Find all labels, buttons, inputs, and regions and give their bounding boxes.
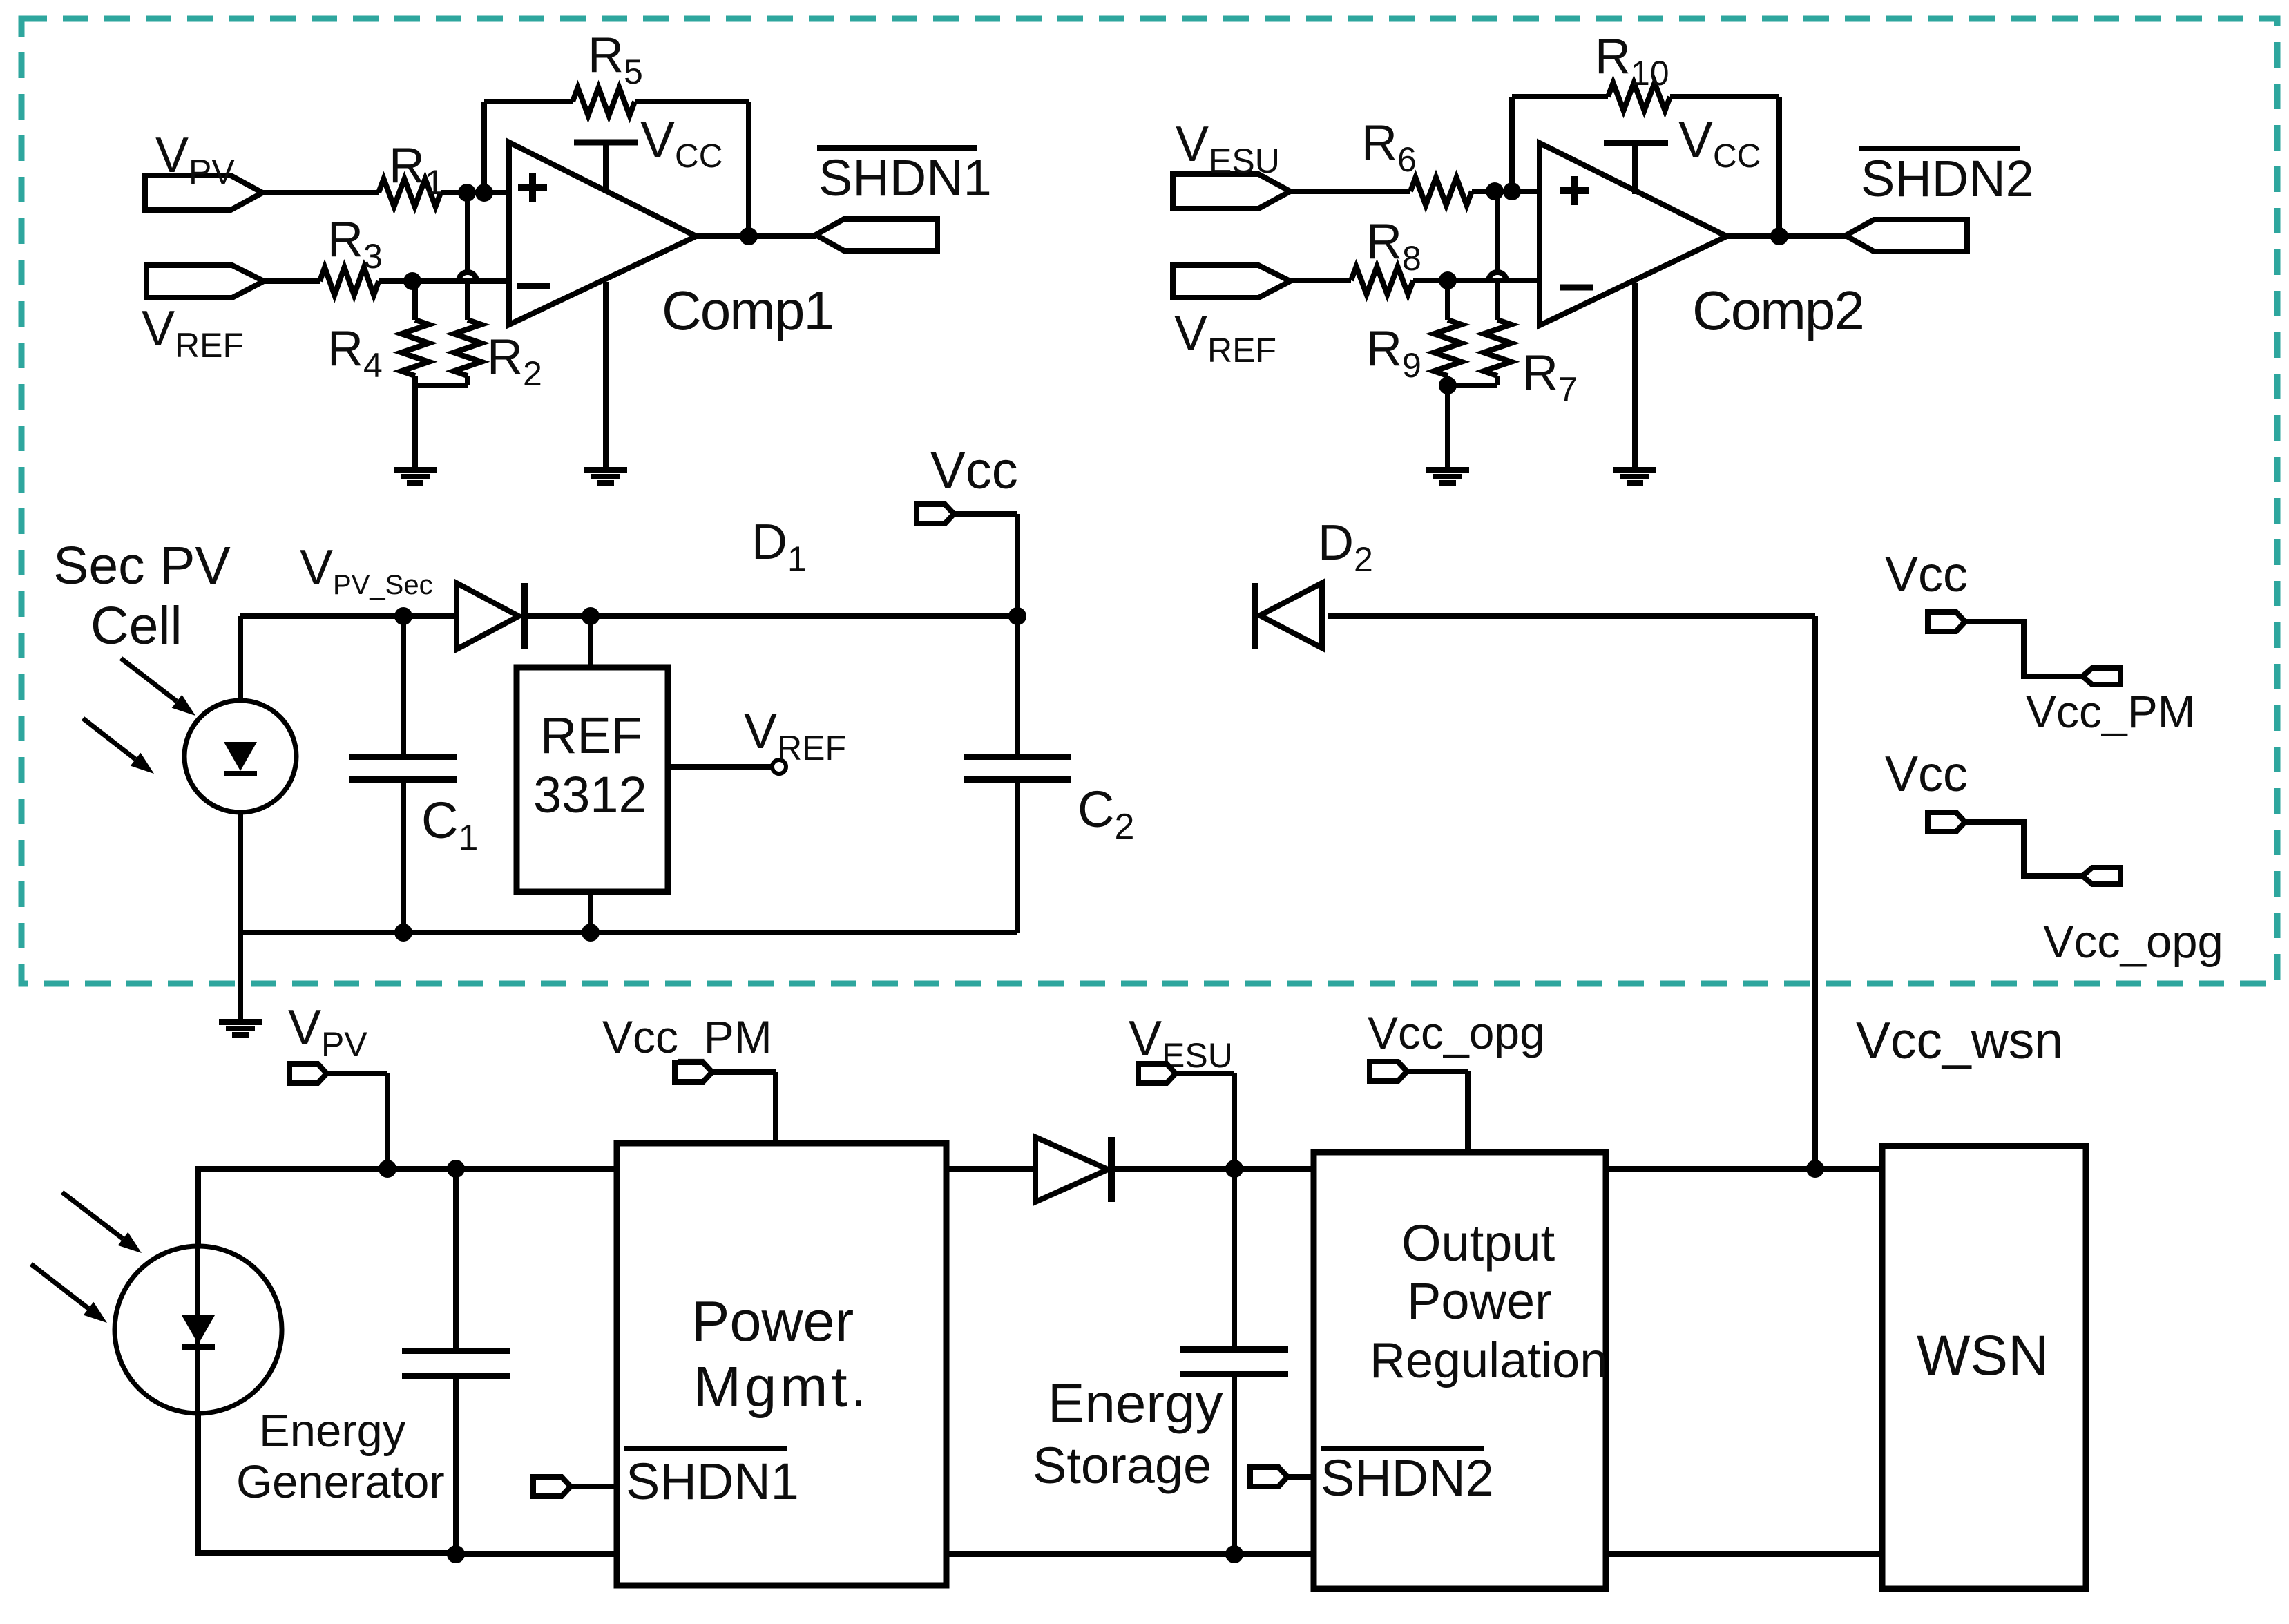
wire rail OPR to WSN (top) [1606, 1166, 1882, 1172]
svg-text:Vcc_PM: Vcc_PM [2026, 686, 2196, 737]
wire D2 to Vcc_wsn drop [1328, 613, 1815, 619]
wire VESU stub to rail [1176, 1073, 1234, 1169]
svg-text:Cell: Cell [90, 596, 182, 656]
wire R6 to +input [1472, 189, 1540, 194]
node dot Vcc_wsn [1806, 1160, 1824, 1178]
wire VESU to R6 [1289, 189, 1410, 194]
wire rail PM to diode [946, 1166, 1035, 1172]
terminal SHDN2 pill [1250, 1467, 1287, 1487]
terminal Vcc (mid supply pill) [917, 504, 954, 524]
resistor R5 [573, 28, 643, 115]
node dot C1 bottom [394, 924, 412, 942]
wire vertical drop to Vcc_wsn [1812, 616, 1818, 1169]
terminal Vcc pill (PM) [1928, 612, 1965, 631]
resistor R4 [327, 281, 429, 467]
light arrow 2 (bottom) [31, 1264, 107, 1323]
svg-text:Vcc_opg: Vcc_opg [2043, 916, 2223, 968]
terminal Vcc_PM pill [2082, 668, 2120, 685]
wire corner above Sec PV cell [238, 616, 243, 700]
node dot EG cap bottom [447, 1545, 465, 1563]
svg-text:SHDN2: SHDN2 [1321, 1449, 1494, 1507]
svg-text:WSN: WSN [1917, 1324, 2049, 1387]
label SHDN2 with overline [1859, 149, 2034, 207]
wire SHDN1 pill to PM box [571, 1484, 617, 1489]
terminal Vcc_opg pill [2082, 868, 2120, 884]
feedback loop left (to R5) [484, 102, 573, 193]
label Vcc (mid supply) [930, 441, 1018, 500]
pin REF3312 top [588, 616, 593, 667]
box Energy Generator [198, 1169, 456, 1553]
op-amp U2 Comp2 triangle [1540, 143, 1727, 325]
wire Vcc stub to rail [954, 514, 1017, 616]
node dot U2 output [1770, 227, 1788, 245]
wire SHDN2 pill to OPR box [1287, 1474, 1314, 1480]
wire rail PM to OPR (bottom) [946, 1551, 1314, 1557]
wire R7/R9 bottom link [1448, 383, 1497, 388]
wire R8 to -input [1413, 278, 1540, 283]
svg-text:Vcc: Vcc [930, 441, 1018, 500]
resistor R9 [1366, 280, 1462, 467]
wire U1 output [696, 233, 816, 239]
pin VREF output with open terminal [668, 704, 846, 774]
resistor R8 [1351, 214, 1421, 294]
wire rail EG to PM (bottom) [456, 1551, 617, 1557]
node dot B (R4 tap) [403, 272, 421, 290]
terminal SHDN1 pill [533, 1477, 571, 1496]
resistor R2 with wire hop over -input [454, 193, 542, 393]
node dot VPV_Sec / C1 top [394, 607, 412, 625]
wire U2 output [1727, 233, 1846, 239]
light arrow 1 (Sec PV) [121, 658, 195, 716]
node dot A1 (+wire/R2) [458, 184, 476, 202]
label Sec PV Cell [53, 536, 231, 656]
feedback loop right (R10 to output) [1670, 97, 1779, 236]
ground under R9 [1426, 467, 1469, 486]
capacitor C2 [964, 616, 1134, 933]
node dot EG cap top [447, 1160, 465, 1178]
resistor R3 [320, 212, 383, 295]
svg-text:Vcc: Vcc [1885, 747, 1968, 802]
svg-text:Energy: Energy [1048, 1373, 1223, 1434]
wire top rail left segment [240, 613, 457, 619]
photodiode Energy Generator [115, 1169, 282, 1553]
svg-text:Mgmt.: Mgmt. [693, 1355, 870, 1419]
svg-text:3312: 3312 [533, 766, 647, 823]
resistor R1 [379, 138, 444, 207]
svg-text:SHDN1: SHDN1 [626, 1453, 799, 1510]
wire Vcc to Vcc_opg [1965, 822, 2082, 876]
wire R2/R4 bottom link [415, 383, 468, 388]
node dot VESU/rail [1225, 1160, 1243, 1178]
svg-text:SHDN2: SHDN2 [1861, 150, 2034, 207]
svg-text:Vcc: Vcc [1885, 547, 1968, 602]
minus input symbol U1 [517, 283, 550, 289]
port SHDN2 (output connector) [1846, 220, 1967, 251]
feedback loop right (R5 to output) [635, 102, 749, 236]
minus input symbol U2 [1560, 285, 1593, 291]
svg-text:Vcc_opg: Vcc_opg [1368, 1007, 1545, 1058]
IC REF3312 box [517, 667, 668, 892]
op-amp U1 Comp1 triangle [509, 142, 696, 325]
light arrow 2 (Sec PV) [83, 718, 154, 774]
node dot C2 (+wire/R10 feedback) [1503, 182, 1521, 200]
wire rail diode to OPR [1115, 1166, 1314, 1172]
svg-text:REF: REF [540, 707, 642, 764]
svg-text:Vcc_PM: Vcc_PM [602, 1011, 772, 1062]
wire VREF to R3 [264, 278, 320, 284]
node dot REF3312 top [582, 607, 600, 625]
ground under Sec PV cell [219, 1019, 262, 1038]
svg-text:Comp1: Comp1 [662, 280, 833, 341]
svg-text:Storage: Storage [1033, 1437, 1211, 1494]
label Vcc (PM terminal) [1885, 547, 1968, 602]
label SHDN1 with overline [817, 148, 992, 207]
ground under U2 [1613, 467, 1656, 486]
svg-text:Regulation: Regulation [1370, 1333, 1607, 1388]
wire R1 to +input [441, 190, 509, 195]
node dot C1 (+wire/R7) [1486, 182, 1504, 200]
label Comp1 [662, 280, 833, 341]
diode D3 (PM to storage) [1035, 1137, 1115, 1202]
label Energy Storage [1033, 1373, 1223, 1494]
label SHDN1 pin with overline (PM box) [624, 1449, 799, 1510]
wire Vcc to Vcc_PM [1965, 622, 2082, 676]
port VPV (Comp1 input connector) [145, 128, 262, 210]
diode D1 [457, 515, 807, 649]
ground stub of U1 [603, 282, 609, 467]
terminal Vcc_opg pill (bottom) [1370, 1062, 1407, 1081]
pin REF3312 bottom [588, 892, 593, 933]
capacitor EG filter [402, 1169, 510, 1554]
svg-text:Generator: Generator [236, 1456, 445, 1508]
label Vcc_opg (bottom stub) [1368, 1007, 1545, 1058]
node dot A2 (+wire/R5 feedback) [475, 184, 493, 202]
svg-text:Vcc_wsn: Vcc_wsn [1856, 1011, 2063, 1069]
light arrow 1 (bottom) [62, 1192, 142, 1253]
label Vcc_opg (terminal) [2043, 916, 2223, 968]
photodiode Sec PV Cell [184, 700, 296, 812]
svg-text:SHDN1: SHDN1 [818, 149, 992, 207]
wire rail OPR to WSN (bottom) [1606, 1551, 1882, 1557]
wire VREF to R8 [1290, 278, 1351, 283]
node dot D (R9 tap) [1439, 271, 1457, 289]
box Output Power Regulation [1314, 1152, 1607, 1589]
plus input symbol U2 [1560, 176, 1589, 205]
label Vcc_PM (bottom stub) [602, 1011, 772, 1062]
node dot U1 output [740, 227, 758, 245]
feedback loop left (to R10) [1512, 97, 1608, 191]
terminal Vcc pill (opg) [1928, 812, 1965, 832]
wire VPV stub to rail [327, 1073, 387, 1169]
diode D2 [1252, 515, 1373, 649]
wire Sec PV cell to ground [238, 933, 243, 1019]
label Vcc (opg terminal) [1885, 747, 1968, 802]
svg-text:Power: Power [691, 1289, 854, 1353]
port VREF (Comp2 input connector) [1173, 265, 1290, 370]
terminal VESU pill [1138, 1064, 1176, 1083]
wire bottom rail (mid section) [240, 930, 1017, 935]
resistor R6 [1361, 115, 1472, 205]
wire R3 to -input [379, 278, 509, 284]
resistor R10 [1595, 29, 1670, 111]
svg-text:Sec PV: Sec PV [53, 536, 231, 595]
wire Vcc_opg stub into OPR box [1407, 1071, 1468, 1152]
ground under R4 [394, 467, 437, 486]
label Vcc_wsn [1856, 1011, 2063, 1069]
label SHDN2 pin with overline (OPR box) [1321, 1449, 1494, 1507]
resistor R7 with wire hop over -input [1484, 191, 1578, 409]
node dot Vcc/C2 [1008, 607, 1026, 625]
node dot VPV/rail [379, 1160, 396, 1178]
svg-text:Output: Output [1401, 1214, 1555, 1272]
box WSN [1882, 1146, 2086, 1589]
port SHDN1 (output connector) [816, 219, 937, 251]
Vcc bar of U2 [1604, 111, 1761, 194]
terminal Vcc_PM pill (bottom) [675, 1062, 712, 1082]
plus input symbol U1 [518, 173, 547, 202]
Vcc bar of U1 [574, 111, 722, 193]
box Power Mgmt [617, 1143, 946, 1585]
port VESU (Comp2 input connector) [1173, 117, 1290, 209]
svg-text:Power: Power [1407, 1272, 1552, 1330]
label VPV_Sec [300, 540, 433, 600]
dashed analog supervision boundary box [21, 19, 2277, 984]
wire rail EG to PM (top) [456, 1166, 617, 1172]
node dot REF3312 bottom [582, 924, 600, 942]
terminal VPV pill [289, 1064, 327, 1083]
label Vcc_PM (terminal) [2026, 686, 2196, 737]
wire D1 to Vcc node [528, 613, 1017, 619]
node dot ES cap bottom [1225, 1545, 1243, 1563]
port VREF (Comp1 input connector) [142, 265, 264, 365]
capacitor C1 [349, 616, 478, 933]
capacitor Energy Storage [1180, 1169, 1288, 1554]
label VPV (bottom) [288, 1000, 367, 1064]
ground under U1 [584, 467, 627, 486]
label VESU (bottom) [1129, 1011, 1233, 1075]
svg-text:Comp2: Comp2 [1692, 280, 1864, 341]
node dot R9 bottom [1439, 376, 1457, 394]
svg-text:Energy: Energy [259, 1405, 406, 1457]
label Comp2 [1692, 280, 1864, 341]
ground stub of U2 [1632, 283, 1638, 467]
wire below Sec PV cell [238, 812, 243, 933]
wire VPV to R1 [261, 190, 379, 195]
wire Vcc_PM stub into PM box [712, 1072, 776, 1143]
